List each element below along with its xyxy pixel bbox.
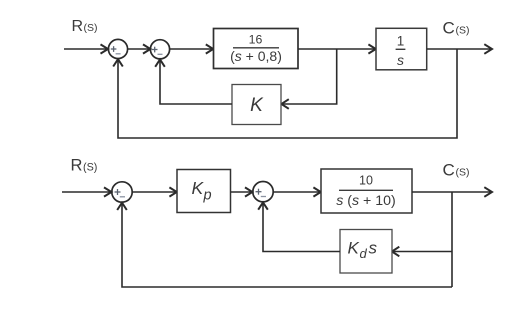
svg-text:(S): (S) <box>83 162 97 174</box>
svg-text:R: R <box>72 18 84 35</box>
label C(s) output top <box>443 19 470 38</box>
svg-text:K: K <box>348 239 360 258</box>
block K <box>232 85 281 125</box>
svg-text:(S): (S) <box>456 167 470 179</box>
wire S2 to block G1 <box>170 44 214 53</box>
wire: outer feedback loop top (J2 down, across, up into S1) <box>113 49 457 138</box>
wire: outer feedback loop bottom (across and up into S3) <box>117 203 452 287</box>
wire S4 to block G3 <box>273 187 320 196</box>
svg-text:d: d <box>360 246 368 261</box>
wire: output with arrow (takeoff node J3 at x=452) <box>412 187 492 197</box>
wire S3 to block Kp <box>132 187 177 196</box>
summing junction S3 <box>112 182 132 202</box>
label R(s) input top <box>72 18 98 35</box>
wire G1 to block G2 (with takeoff node J1) <box>298 44 376 53</box>
svg-text:s: s <box>369 239 378 258</box>
svg-text:p: p <box>203 188 212 204</box>
svg-text:1: 1 <box>397 33 405 48</box>
wire: inner feedback takeoff J1 down into block K <box>281 49 336 109</box>
wire: branch into block Kds (arrow pointing left) <box>392 247 452 257</box>
summing junction S1 <box>108 39 127 58</box>
wire: feedback vertical from J3 down to outer bottom line <box>451 192 453 287</box>
summing junction S4 <box>253 182 273 202</box>
wire: Kds output left then up into S4 <box>258 202 340 251</box>
summing junction S2 <box>150 40 169 59</box>
svg-text:C: C <box>443 161 455 180</box>
svg-text:10: 10 <box>359 174 373 188</box>
label R(s) input bottom <box>71 157 98 175</box>
svg-text:(S): (S) <box>456 25 470 37</box>
wire: input to summing junction S3 <box>62 187 112 196</box>
block Kp <box>177 170 231 213</box>
svg-text:R: R <box>71 157 83 175</box>
wire Kp to summing junction S4 <box>231 187 253 196</box>
svg-text:C: C <box>443 19 455 38</box>
svg-text:16: 16 <box>249 33 263 47</box>
wire S1 to S2 <box>128 44 151 53</box>
block G3: 10/s(s+10) <box>321 169 412 213</box>
svg-text:s (s + 10): s (s + 10) <box>336 193 396 209</box>
svg-text:s: s <box>397 52 404 68</box>
wire: input to summing junction S1 <box>64 44 108 53</box>
wire: output with arrow (takeoff node J2 at x=457) <box>427 44 492 54</box>
svg-text:(s + 0,8): (s + 0,8) <box>230 48 282 64</box>
svg-text:(S): (S) <box>84 22 98 34</box>
label C(s) output bottom <box>443 161 470 180</box>
block G1: 16/(s+0,8) <box>214 29 299 69</box>
wire: K output left then up into S2 <box>155 60 232 105</box>
block G2: 1/s <box>376 28 427 70</box>
block Kds <box>340 230 392 274</box>
svg-text:K: K <box>250 95 264 116</box>
